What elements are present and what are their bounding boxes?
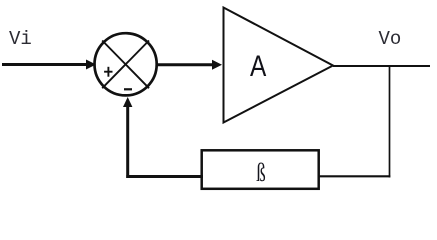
svg-text:A: A (250, 50, 267, 83)
svg-text:Vi: Vi (9, 28, 32, 50)
svg-text:ß: ß (256, 157, 266, 187)
svg-text:Vo: Vo (379, 28, 402, 50)
